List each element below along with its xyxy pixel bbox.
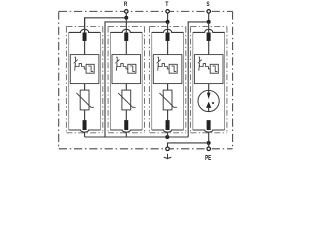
spark gap bottom electrode bbox=[206, 102, 211, 112]
module 4 bottom contact blade bbox=[207, 120, 211, 129]
earth symbol bbox=[164, 154, 171, 159]
varistor module 1 bbox=[80, 90, 89, 110]
wire bus R to module 1 bbox=[85, 18, 127, 33]
module 4 bottom plug-in contact bbox=[193, 130, 225, 132]
module 1 monitoring box bbox=[70, 55, 99, 84]
terminal S label bbox=[207, 1, 210, 8]
node R junction bbox=[124, 16, 128, 20]
wire S terminal to junction bbox=[208, 13, 210, 22]
module 3 top contact blade bbox=[166, 33, 170, 41]
varistor module 3 diagonal bbox=[159, 93, 177, 107]
module 1 indicator window bbox=[86, 64, 94, 73]
svg-text:S: S bbox=[207, 1, 210, 8]
module 4 wire box to spark gap bbox=[208, 84, 210, 91]
svg-text:R: R bbox=[124, 1, 128, 8]
module 4 right contact rail bbox=[224, 32, 226, 130]
module 1 wire terminal to top contact bbox=[84, 18, 86, 33]
wire common bottom bus bbox=[85, 136, 189, 138]
varistor module 3 bbox=[163, 90, 172, 110]
module 3 top plug-in contact bbox=[152, 29, 184, 32]
module 1 wire to bottom bus bbox=[84, 132, 86, 137]
module 1 indicator curve bbox=[88, 66, 93, 71]
module 3 wire box to varistor bbox=[167, 84, 169, 91]
module 1 bottom plug-in contact bbox=[69, 130, 101, 132]
module 2 indicator curve bbox=[130, 66, 135, 71]
module 3 indicator window bbox=[169, 64, 177, 73]
svg-text:T: T bbox=[165, 1, 168, 8]
module 3 wire terminal to top contact bbox=[167, 22, 169, 33]
module 2 wire contact to monitor box bbox=[125, 41, 127, 55]
module 4 top plug-in contact bbox=[193, 29, 225, 32]
module 4 monitoring box bbox=[194, 55, 223, 84]
module 3 left contact rail bbox=[151, 32, 153, 130]
module 2 wire box to varistor bbox=[125, 84, 127, 91]
module 2 right contact rail bbox=[141, 32, 143, 130]
module 4 wire contact to monitor box bbox=[208, 41, 210, 55]
wire bus S left descender bbox=[188, 22, 209, 137]
module 3 dash-dot frame bbox=[149, 27, 185, 133]
spark gap module 4 bbox=[198, 90, 219, 111]
module 2 wire varistor to bottom contact bbox=[125, 110, 127, 121]
module 1 top plug-in contact bbox=[69, 29, 101, 32]
module 1 dash-dot frame bbox=[66, 27, 102, 133]
terminal PE label bbox=[205, 153, 211, 162]
terminal R bbox=[125, 10, 129, 14]
module 3 linkage meander bbox=[158, 64, 169, 69]
module 3 wire varistor to bottom contact bbox=[167, 110, 169, 121]
terminal T label bbox=[165, 1, 168, 8]
module 1 wire box to varistor bbox=[84, 84, 86, 91]
module 3 bottom contact blade bbox=[166, 120, 170, 129]
module 2 bottom contact blade bbox=[125, 120, 129, 129]
module 1 wire varistor to bottom contact bbox=[84, 110, 86, 121]
module 2 disconnector switch bbox=[115, 57, 119, 70]
svg-text:PE: PE bbox=[205, 153, 211, 162]
terminal R label bbox=[124, 1, 128, 8]
earth terminal bbox=[166, 147, 170, 151]
module 1 right contact rail bbox=[100, 32, 102, 130]
module 4 top contact blade bbox=[207, 33, 211, 41]
node PE junction bbox=[207, 141, 211, 145]
module 2 left contact rail bbox=[109, 32, 111, 130]
module 2 dash-dot frame bbox=[108, 27, 144, 133]
node bottom bus junction bbox=[165, 135, 169, 139]
varistor module 2 bbox=[122, 90, 131, 110]
module 4 wire terminal to top contact bbox=[208, 22, 210, 33]
module 3 disconnector switch bbox=[157, 57, 161, 70]
module 1 left contact rail bbox=[68, 32, 70, 130]
module 2 indicator window bbox=[128, 64, 136, 73]
wire bus T left descender bbox=[105, 22, 168, 137]
module 3 bottom plug-in contact bbox=[152, 130, 184, 132]
module 3 right contact rail bbox=[183, 32, 185, 130]
module 4 linkage meander bbox=[199, 64, 210, 69]
module 1 wire contact to monitor box bbox=[84, 41, 86, 55]
node T junction bbox=[166, 20, 170, 24]
node S junction bbox=[207, 20, 211, 24]
module 4 indicator window bbox=[210, 64, 218, 73]
module 3 monitoring box bbox=[153, 55, 182, 84]
module 4 left contact rail bbox=[192, 32, 194, 130]
module 4 dash-dot frame bbox=[191, 27, 227, 133]
module 4 indicator curve bbox=[212, 66, 217, 71]
module 2 monitoring box bbox=[112, 55, 141, 84]
wire R terminal to junction bbox=[125, 13, 127, 18]
module 4 disconnector switch bbox=[198, 57, 202, 70]
varistor module 2 diagonal bbox=[118, 93, 136, 107]
spark gap top electrode bbox=[207, 90, 211, 99]
module 1 bottom contact blade bbox=[83, 120, 87, 129]
wire PE bus bbox=[168, 143, 209, 147]
module 2 top plug-in contact bbox=[110, 29, 142, 32]
varistor module 1 diagonal bbox=[76, 93, 94, 107]
module 1 disconnector switch bbox=[74, 57, 78, 70]
terminal S bbox=[207, 10, 211, 14]
module 3 indicator curve bbox=[171, 66, 176, 71]
module 2 wire terminal to top contact bbox=[125, 18, 127, 33]
module 2 top contact blade bbox=[125, 33, 129, 41]
module 2 linkage meander bbox=[117, 64, 128, 69]
outer enclosure dash-dot border bbox=[59, 11, 233, 148]
terminal PE bbox=[207, 147, 211, 151]
module 3 wire to bottom bus bbox=[167, 132, 169, 137]
module 3 wire contact to monitor box bbox=[167, 41, 169, 55]
module 1 linkage meander bbox=[75, 64, 86, 69]
module 2 wire to bottom bus bbox=[125, 132, 127, 137]
module 2 bottom plug-in contact bbox=[110, 130, 142, 132]
module 4 wire to PE junction bbox=[208, 132, 210, 143]
spark gap trigger dot bbox=[212, 102, 214, 104]
module 1 top contact blade bbox=[83, 33, 87, 41]
wire T terminal to junction bbox=[167, 13, 169, 22]
wire PE junction to PE terminal bbox=[208, 143, 210, 147]
terminal T bbox=[166, 10, 170, 14]
